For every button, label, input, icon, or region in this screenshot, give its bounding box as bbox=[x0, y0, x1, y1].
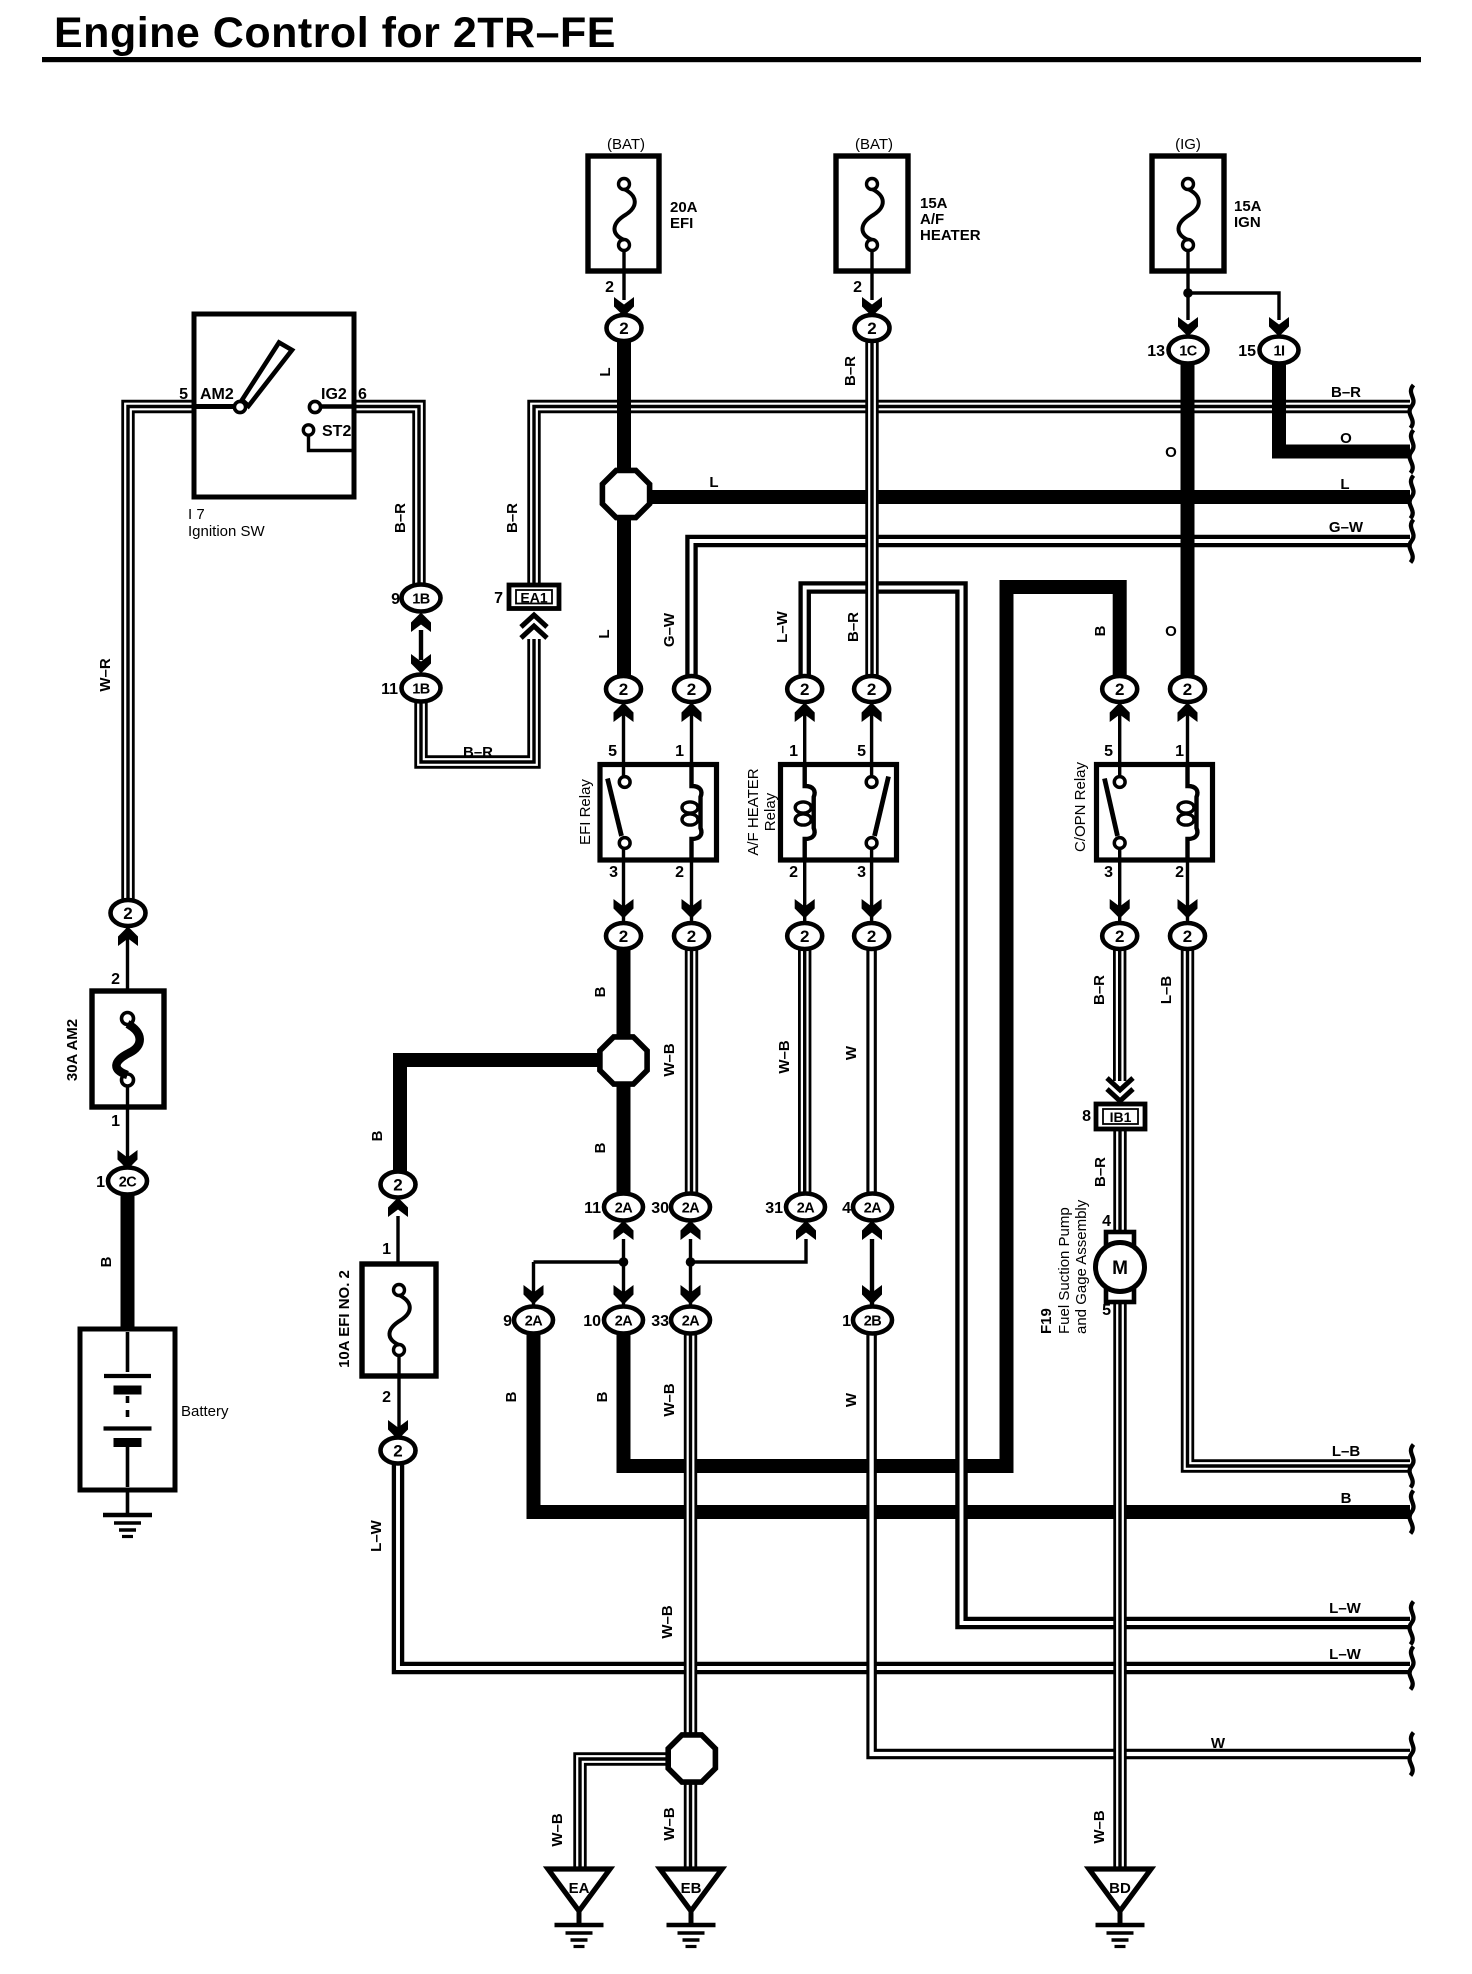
ground EB bbox=[660, 1869, 722, 1911]
A/F HEATER relay coil bbox=[805, 765, 815, 860]
svg-text:2: 2 bbox=[1183, 680, 1192, 699]
svg-text:3: 3 bbox=[857, 864, 866, 881]
svg-text:6: 6 bbox=[358, 386, 367, 403]
octagon junction J2 on B net bbox=[600, 1037, 647, 1084]
svg-text:2: 2 bbox=[687, 927, 696, 946]
bus end curl L-W 1 bbox=[1410, 1602, 1414, 1645]
svg-text:2: 2 bbox=[393, 1176, 402, 1195]
connector oval below fuse 2 bbox=[855, 315, 890, 341]
svg-text:G–W: G–W bbox=[1329, 519, 1364, 536]
svg-text:1: 1 bbox=[382, 1241, 391, 1258]
wire B: EFI relay switch oval down to octagon junction bbox=[617, 948, 631, 1038]
svg-text:2A: 2A bbox=[615, 1314, 634, 1330]
wire G-W net: EFI relay coil up to bus right bbox=[692, 541, 1411, 677]
svg-text:B: B bbox=[1341, 1490, 1352, 1507]
svg-text:EA1: EA1 bbox=[520, 590, 547, 606]
svg-text:B: B bbox=[1092, 625, 1109, 636]
svg-text:7: 7 bbox=[494, 590, 503, 607]
svg-text:B–R: B–R bbox=[842, 356, 859, 386]
wire W-R: ignition switch AM2 left and down to battery connector bbox=[128, 407, 194, 902]
svg-text:2C: 2C bbox=[119, 1175, 138, 1191]
EFI relay coil bbox=[692, 765, 702, 860]
svg-text:10: 10 bbox=[583, 1313, 601, 1330]
ignition switch I7 box bbox=[194, 314, 354, 497]
svg-text:W–B: W–B bbox=[661, 1043, 678, 1077]
svg-text:B–R: B–R bbox=[1092, 1157, 1109, 1187]
connector 9-2A bbox=[514, 1307, 553, 1334]
wire B: octagon junction down to 11-2A bbox=[617, 1083, 631, 1194]
arrow above connector 2C bbox=[118, 1150, 138, 1170]
ignition switch IG2 contact bbox=[309, 401, 320, 412]
connector IB1 bbox=[1096, 1104, 1145, 1129]
wire: link below 11-2A with junction bbox=[622, 1239, 625, 1306]
svg-text:9: 9 bbox=[391, 591, 400, 608]
svg-text:L: L bbox=[709, 474, 718, 491]
svg-text:2B: 2B bbox=[864, 1314, 882, 1330]
svg-text:3: 3 bbox=[1104, 864, 1113, 881]
svg-text:F19: F19 bbox=[1038, 1308, 1055, 1334]
wire: A/F relay pin5 to oval bbox=[870, 703, 873, 778]
bus end curl L bbox=[1410, 476, 1414, 519]
connector 1I bbox=[1260, 337, 1299, 364]
wire B net: 10-2A down, right, up, right, down to C/OPN relay bbox=[624, 587, 1120, 1466]
svg-text:8: 8 bbox=[1082, 1108, 1091, 1125]
svg-text:2: 2 bbox=[675, 864, 684, 881]
arrow into connector 1I bbox=[1269, 317, 1289, 337]
wire O: connector 1C down to C/OPN coil oval bbox=[1181, 362, 1195, 677]
svg-text:31: 31 bbox=[765, 1200, 783, 1217]
svg-text:EFI Relay: EFI Relay bbox=[577, 779, 594, 845]
A/F HEATER relay switch bbox=[875, 777, 889, 837]
svg-text:W–R: W–R bbox=[97, 658, 114, 692]
bus end curl L-B bbox=[1410, 1445, 1414, 1488]
wire B-R bus + vertical to EA1 connector bbox=[534, 407, 1410, 586]
arrow above lower oval of 10A fuse bbox=[388, 1420, 408, 1440]
svg-text:2: 2 bbox=[605, 279, 614, 296]
wire: C/OPN relay pin2 down to oval bbox=[1186, 839, 1189, 922]
svg-text:5: 5 bbox=[1102, 1302, 1111, 1319]
arrows below relay input ovals bbox=[614, 703, 634, 723]
wire W-B: A/F relay coil oval down to 31-2A bbox=[798, 948, 811, 1194]
svg-text:B: B bbox=[592, 1142, 609, 1153]
svg-text:EFI: EFI bbox=[670, 215, 693, 232]
connector 30-2A bbox=[671, 1194, 710, 1221]
svg-text:1: 1 bbox=[111, 1113, 120, 1130]
svg-text:L: L bbox=[596, 629, 613, 638]
svg-text:2: 2 bbox=[111, 971, 120, 988]
svg-text:(BAT): (BAT) bbox=[607, 136, 645, 153]
ignition switch lever bbox=[242, 343, 292, 407]
wire L-B net: C/OPN coil oval down then right to edge bbox=[1188, 948, 1411, 1466]
arrow into connector 1C bbox=[1178, 317, 1198, 337]
arrow above 11-1B bbox=[411, 654, 431, 674]
svg-text:B–R: B–R bbox=[1331, 384, 1361, 401]
connector oval on W-R at battery bbox=[111, 900, 146, 926]
svg-text:2: 2 bbox=[1183, 927, 1192, 946]
svg-text:5: 5 bbox=[857, 743, 866, 760]
svg-text:4: 4 bbox=[1102, 1213, 1111, 1230]
svg-text:15A: 15A bbox=[920, 195, 948, 212]
svg-text:2: 2 bbox=[1115, 927, 1124, 946]
fuel pump motor M bbox=[1106, 1232, 1134, 1250]
svg-text:2: 2 bbox=[1175, 864, 1184, 881]
wire: link below 30-2A with junction and branch to 31-2A bbox=[689, 1239, 692, 1306]
wire L: octagon down to EFI relay switch oval bbox=[617, 517, 631, 677]
svg-text:W: W bbox=[1211, 1735, 1226, 1752]
svg-text:L–W: L–W bbox=[1329, 1600, 1362, 1617]
wire: fuse 2 output to connector bbox=[870, 250, 873, 300]
wire: battery to chassis ground bbox=[126, 1490, 130, 1513]
wire W-B: ground octagon down to EB ground bbox=[684, 1782, 697, 1869]
svg-text:2: 2 bbox=[867, 319, 876, 338]
bus end curl W bbox=[1410, 1733, 1414, 1776]
svg-text:2: 2 bbox=[619, 927, 628, 946]
svg-text:EA: EA bbox=[569, 1880, 590, 1897]
wire B-R: ignition switch IG2 right and down to 9-1B bbox=[354, 407, 419, 587]
svg-text:L: L bbox=[597, 367, 614, 376]
arrow below oval of 10A fuse bbox=[388, 1198, 408, 1218]
A/F HEATER relay box bbox=[781, 765, 897, 861]
double chevron arrows into EA1 bbox=[521, 626, 547, 638]
svg-text:Battery: Battery bbox=[181, 1403, 229, 1420]
ovals below relays bbox=[606, 923, 641, 949]
wire W-B: fuel pump down to BD ground bbox=[1113, 1301, 1126, 1869]
svg-text:L–W: L–W bbox=[1329, 1646, 1362, 1663]
svg-text:A/F HEATER: A/F HEATER bbox=[745, 768, 762, 855]
EFI relay box bbox=[600, 765, 717, 861]
double chevron arrows into IB1 bbox=[1107, 1089, 1133, 1101]
fuse 15A A/F HEATER bbox=[836, 156, 908, 271]
svg-text:W–B: W–B bbox=[1091, 1810, 1108, 1844]
wire W net: connector 1-2B down then right to edge (W bus) bbox=[872, 1333, 1410, 1754]
svg-text:IB1: IB1 bbox=[1110, 1109, 1132, 1125]
fuse 15A IGN bbox=[1152, 156, 1224, 271]
wire L-W net #2: from 10A EFI NO.2 fuse down then right to edge bbox=[398, 1462, 1410, 1668]
connector 4-2A bbox=[853, 1194, 892, 1221]
svg-text:15A: 15A bbox=[1234, 198, 1262, 215]
junction dot at fuse 3 branch bbox=[1183, 288, 1193, 298]
wire B: connector 2C down to battery bbox=[121, 1193, 135, 1330]
svg-text:(BAT): (BAT) bbox=[855, 136, 893, 153]
svg-text:L–W: L–W bbox=[368, 1519, 385, 1552]
arrows above lower 2A/2B connector row bbox=[524, 1285, 544, 1305]
svg-text:30: 30 bbox=[651, 1200, 669, 1217]
svg-text:2: 2 bbox=[800, 680, 809, 699]
svg-text:B: B bbox=[503, 1391, 520, 1402]
svg-text:2A: 2A bbox=[797, 1201, 816, 1217]
junction dot below 11-2A bbox=[619, 1257, 629, 1267]
svg-text:BD: BD bbox=[1109, 1880, 1131, 1897]
svg-text:G–W: G–W bbox=[661, 612, 678, 647]
wire: EFI relay pin5 to oval bbox=[622, 703, 625, 778]
junction dot below 30-2A bbox=[686, 1257, 696, 1267]
wire B-R: 11-1B down, right, up to EA1 bbox=[421, 639, 534, 762]
connector 10-2A bbox=[604, 1307, 643, 1334]
svg-text:A/F: A/F bbox=[920, 211, 944, 228]
connector 9-1B bbox=[402, 585, 441, 612]
svg-text:B: B bbox=[369, 1130, 386, 1141]
svg-text:2: 2 bbox=[123, 904, 132, 923]
bus end curl B-R bbox=[1410, 385, 1414, 428]
svg-text:Fuel Suction Pump: Fuel Suction Pump bbox=[1056, 1207, 1073, 1334]
svg-text:1: 1 bbox=[96, 1174, 105, 1191]
wire: EFI relay pin2 down to oval bbox=[690, 839, 693, 922]
svg-text:5: 5 bbox=[608, 743, 617, 760]
ground BD bbox=[1089, 1869, 1151, 1911]
svg-text:2: 2 bbox=[619, 319, 628, 338]
svg-text:2A: 2A bbox=[682, 1314, 701, 1330]
oval above 10A EFI NO.2 fuse bbox=[381, 1172, 416, 1198]
arrow below battery W-R oval bbox=[118, 927, 138, 947]
fuse 10A EFI NO. 2 bbox=[362, 1264, 436, 1376]
svg-text:2: 2 bbox=[619, 680, 628, 699]
wire: link between 4-2A and 1-2B bbox=[870, 1239, 874, 1306]
C/OPN relay box bbox=[1097, 765, 1213, 861]
svg-text:W–B: W–B bbox=[776, 1040, 793, 1074]
ground EA bbox=[548, 1869, 610, 1911]
connector 31-2A bbox=[786, 1194, 825, 1221]
svg-text:L: L bbox=[1340, 476, 1349, 493]
svg-text:I 7: I 7 bbox=[188, 506, 205, 523]
wire: 30A AM2 fuse down to connector 2C bbox=[126, 1085, 129, 1168]
octagon junction J3 on W-B ground net bbox=[668, 1735, 715, 1782]
wire: between 9-1B and 11-1B bbox=[419, 630, 423, 660]
svg-text:2: 2 bbox=[853, 279, 862, 296]
octagon junction J1 on L net bbox=[602, 470, 649, 517]
svg-text:5: 5 bbox=[1104, 743, 1113, 760]
svg-text:2: 2 bbox=[687, 680, 696, 699]
svg-text:Ignition SW: Ignition SW bbox=[188, 523, 266, 540]
svg-text:L–W: L–W bbox=[774, 610, 791, 643]
svg-text:B–R: B–R bbox=[504, 503, 521, 533]
connector 11-2A bbox=[604, 1194, 643, 1221]
svg-text:O: O bbox=[1340, 430, 1352, 447]
svg-text:2: 2 bbox=[789, 864, 798, 881]
svg-text:2A: 2A bbox=[864, 1201, 883, 1217]
wire W-B: EFI relay coil oval down to 30-2A bbox=[685, 948, 698, 1194]
svg-text:11: 11 bbox=[381, 681, 398, 698]
wire: oval to 10A EFI NO.2 fuse bbox=[396, 1216, 399, 1264]
connector 1-2B bbox=[853, 1307, 892, 1334]
svg-text:Engine Control for 2TR–FE: Engine Control for 2TR–FE bbox=[54, 9, 616, 57]
svg-text:2A: 2A bbox=[682, 1201, 701, 1217]
svg-text:W–B: W–B bbox=[549, 1813, 566, 1847]
svg-text:IG2: IG2 bbox=[321, 386, 347, 403]
svg-text:11: 11 bbox=[584, 1200, 601, 1217]
wire B-R: fuse 2 down to A/F relay switch oval bbox=[865, 340, 878, 677]
wire O net: 1I connector down and right to edge bbox=[1279, 361, 1410, 452]
ground below battery bbox=[103, 1513, 152, 1518]
bus end curl L-W 2 bbox=[1410, 1647, 1414, 1690]
arrows below 2A connector row bbox=[614, 1221, 634, 1241]
wire: AM2 contact to box edge bbox=[196, 404, 235, 409]
svg-text:B–R: B–R bbox=[845, 612, 862, 642]
svg-text:W–B: W–B bbox=[661, 1383, 678, 1417]
arrow into connector below fuse 1 bbox=[614, 297, 634, 317]
wire L bus (octagon to right edge) bbox=[650, 490, 1410, 504]
svg-text:AM2: AM2 bbox=[200, 386, 234, 403]
battery bbox=[80, 1329, 175, 1490]
svg-text:4: 4 bbox=[842, 1200, 851, 1217]
svg-text:1C: 1C bbox=[1179, 344, 1198, 360]
bus end curl B bbox=[1410, 1491, 1414, 1534]
svg-text:(IG): (IG) bbox=[1175, 136, 1201, 153]
wire B bus: from connector 9-2A down then right to edge bbox=[534, 1333, 1411, 1512]
fuse 20A EFI bbox=[588, 156, 659, 271]
wire: C/OPN relay pin3 down to oval bbox=[1118, 847, 1121, 922]
svg-text:W: W bbox=[843, 1392, 860, 1407]
svg-text:2A: 2A bbox=[615, 1201, 634, 1217]
fuse 30A AM2 (fusible link) bbox=[92, 991, 164, 1107]
svg-text:B: B bbox=[592, 986, 609, 997]
wire: fuse 3 output with branch to 1C and 1I bbox=[1186, 250, 1189, 320]
wire: C/OPN relay pin5 to oval bbox=[1118, 703, 1121, 778]
wire: EFI relay pin3 down to oval bbox=[622, 847, 625, 922]
svg-text:W–B: W–B bbox=[661, 1807, 678, 1841]
svg-text:W: W bbox=[843, 1045, 860, 1060]
wire W: A/F relay switch oval down to 4-2A bbox=[866, 948, 877, 1194]
svg-text:ST2: ST2 bbox=[322, 423, 351, 440]
svg-text:2: 2 bbox=[1115, 680, 1124, 699]
svg-text:1B: 1B bbox=[412, 592, 430, 608]
arrow into connector below fuse 2 bbox=[862, 297, 882, 317]
wire B-R: C/OPN relay switch oval down to IB1 bbox=[1113, 948, 1126, 1081]
svg-text:C/OPN Relay: C/OPN Relay bbox=[1072, 761, 1089, 852]
wire: battery connector up to 30A AM2 fuse bbox=[126, 925, 129, 993]
svg-text:1I: 1I bbox=[1273, 344, 1285, 360]
svg-text:1: 1 bbox=[842, 1313, 851, 1330]
svg-text:1B: 1B bbox=[412, 682, 430, 698]
svg-text:2: 2 bbox=[867, 927, 876, 946]
connector EA1 bbox=[509, 585, 559, 609]
svg-text:1: 1 bbox=[789, 743, 798, 760]
ignition switch AM2 contact bbox=[234, 401, 245, 412]
connector 2C bbox=[108, 1168, 147, 1195]
svg-text:EB: EB bbox=[681, 1880, 702, 1897]
ovals above relays bbox=[606, 676, 641, 702]
svg-text:20A: 20A bbox=[670, 199, 698, 216]
svg-text:30A AM2: 30A AM2 bbox=[64, 1019, 81, 1081]
svg-text:HEATER: HEATER bbox=[920, 227, 981, 244]
svg-text:B–R: B–R bbox=[1091, 975, 1108, 1005]
svg-text:B: B bbox=[594, 1391, 611, 1402]
oval below 10A EFI NO.2 fuse bbox=[381, 1438, 416, 1464]
svg-text:and Gage Assembly: and Gage Assembly bbox=[1073, 1199, 1090, 1334]
svg-text:2A: 2A bbox=[525, 1314, 544, 1330]
svg-text:B: B bbox=[98, 1256, 115, 1267]
svg-text:9: 9 bbox=[503, 1313, 512, 1330]
ignition switch ST2 contact bbox=[303, 425, 313, 435]
wire L-W net #1: A/F relay pin1 up, right, down, right to edge bbox=[805, 588, 1410, 1624]
wire L: fuse 1 down to octagon bbox=[617, 339, 631, 471]
C/OPN relay coil bbox=[1188, 765, 1198, 860]
svg-text:L–B: L–B bbox=[1158, 976, 1175, 1005]
svg-text:Relay: Relay bbox=[762, 792, 779, 831]
svg-text:M: M bbox=[1112, 1258, 1128, 1279]
bus end curl O bbox=[1410, 430, 1414, 473]
svg-text:3: 3 bbox=[609, 864, 618, 881]
svg-text:IGN: IGN bbox=[1234, 214, 1261, 231]
svg-text:13: 13 bbox=[1147, 343, 1165, 360]
bus end curl G-W bbox=[1410, 520, 1414, 563]
connector 33-2A bbox=[671, 1307, 710, 1334]
wire: A/F relay pin1 to oval bbox=[803, 703, 806, 787]
svg-text:O: O bbox=[1165, 444, 1177, 461]
wire B: octagon junction left branch to 10A EFI NO.2 fuse bbox=[400, 1060, 600, 1172]
svg-text:B–R: B–R bbox=[463, 744, 493, 761]
wire: EFI relay pin1 to oval bbox=[690, 703, 693, 787]
wire W-B net: connector 33-2A down to ground octagon bbox=[684, 1333, 697, 1735]
connector 11-1B bbox=[402, 675, 441, 702]
wire: A/F relay pin3 down to oval bbox=[870, 847, 873, 922]
svg-text:2: 2 bbox=[393, 1442, 402, 1461]
svg-text:5: 5 bbox=[179, 386, 188, 403]
svg-text:B–R: B–R bbox=[392, 503, 409, 533]
arrow below 9-1B bbox=[411, 613, 431, 633]
svg-text:15: 15 bbox=[1238, 343, 1256, 360]
svg-text:33: 33 bbox=[651, 1313, 669, 1330]
wire: IG2 contact to box edge bbox=[320, 404, 352, 409]
svg-text:O: O bbox=[1165, 623, 1177, 640]
wire: 10A EFI NO.2 fuse to lower oval bbox=[397, 1355, 400, 1438]
wire: C/OPN relay pin1 to oval bbox=[1186, 703, 1189, 787]
svg-text:L–B: L–B bbox=[1332, 1443, 1361, 1460]
svg-text:2: 2 bbox=[382, 1389, 391, 1406]
arrows above relay output ovals bbox=[614, 899, 634, 919]
EFI relay switch bbox=[608, 779, 622, 837]
svg-text:1: 1 bbox=[1175, 743, 1184, 760]
svg-text:2: 2 bbox=[800, 927, 809, 946]
svg-text:2: 2 bbox=[867, 680, 876, 699]
connector oval below fuse 1 bbox=[607, 315, 642, 341]
connector 1C bbox=[1169, 337, 1208, 364]
C/OPN relay switch bbox=[1105, 779, 1118, 837]
svg-text:10A EFI NO. 2: 10A EFI NO. 2 bbox=[336, 1270, 353, 1368]
wire B-R: IB1 down to fuel pump bbox=[1113, 1128, 1126, 1233]
wire: fuse 1 output to connector bbox=[622, 250, 625, 300]
svg-text:1: 1 bbox=[675, 743, 684, 760]
wire: ST2 stub inside ignition switch bbox=[309, 435, 353, 451]
wire: A/F relay pin2 down to oval bbox=[803, 839, 806, 922]
svg-text:W–B: W–B bbox=[659, 1605, 676, 1639]
wire W-B: ground octagon left branch to EA ground bbox=[580, 1759, 668, 1869]
